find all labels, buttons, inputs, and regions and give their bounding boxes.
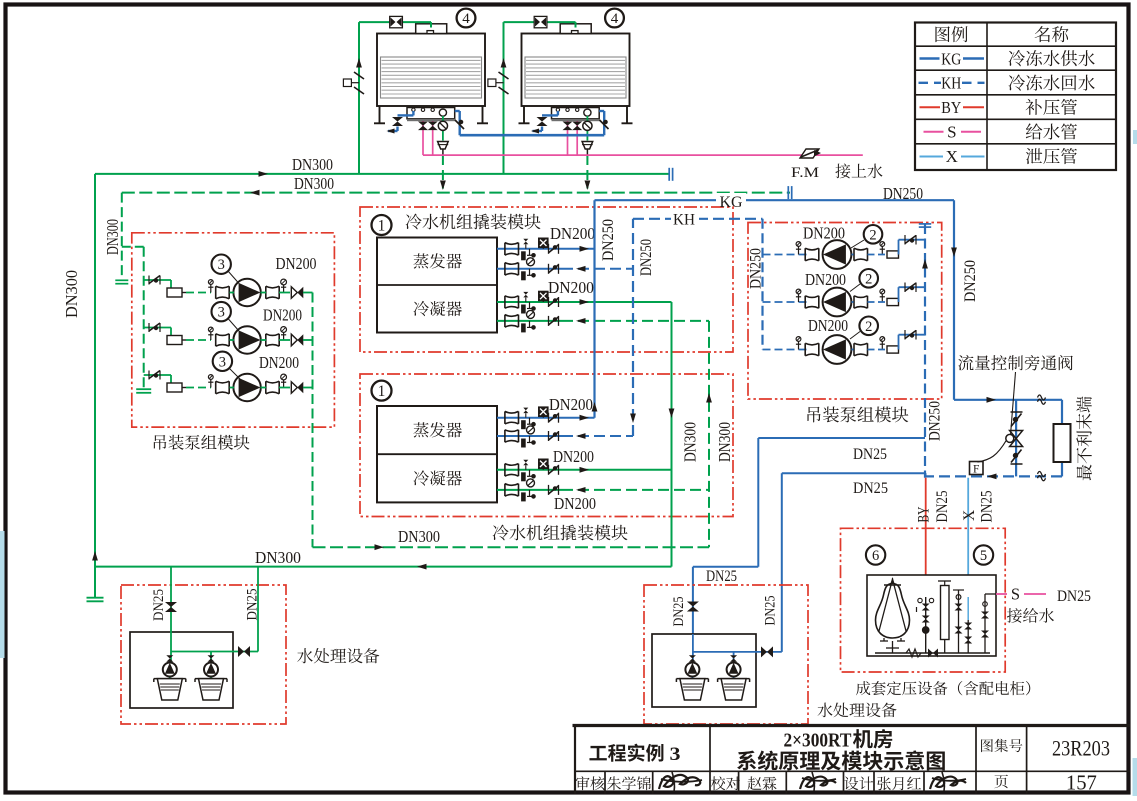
- tower riser balancing valve: [343, 72, 364, 94]
- svg-text:2: 2: [865, 319, 872, 335]
- label DN300 bottom dashed header: [398, 527, 440, 546]
- left pump module caption: [154, 435, 250, 450]
- pump branch pipe: [230, 339, 267, 341]
- equipment tag circle 5: [974, 545, 993, 564]
- svg-text:DN25: DN25: [706, 568, 737, 585]
- left dosing tap 1 DN25 from header: [170, 567, 172, 652]
- pump discharge butterfly valve: [279, 382, 313, 393]
- left edge blue strip: [0, 531, 5, 658]
- module1 title text: [406, 214, 541, 230]
- pump suction dashed segment from manifold: [763, 254, 808, 256]
- supply pipe to terminal: [954, 399, 1062, 401]
- left water treatment caption: [297, 648, 379, 663]
- svg-text:2: 2: [869, 227, 876, 243]
- left dosing pump 1: [163, 655, 177, 676]
- svg-text:X: X: [946, 147, 958, 166]
- legend row BY pressure makeup: [920, 98, 1077, 117]
- flow control valve body: [1006, 431, 1023, 447]
- KG chilled supply riser: [593, 200, 595, 418]
- pump suction dashed segment from manifold: [763, 349, 808, 351]
- terminal drop pipe: [1061, 400, 1063, 477]
- pump tag circle 3 row3: [213, 352, 240, 379]
- pump suction gauge: [208, 327, 213, 340]
- label X vertical: [961, 510, 978, 521]
- left dosing pump 2: [204, 655, 218, 676]
- condenser supply bottom header DN300: [95, 566, 672, 568]
- condenser inlet pipe symbols: [505, 315, 559, 332]
- condenser inlet pipe symbols: [505, 484, 559, 501]
- tower drain dashed pipe to return header: [585, 155, 591, 190]
- pump discharge gauge H: [880, 337, 885, 350]
- checker name zhao lin: [748, 776, 777, 790]
- title line1 2x300RT plant room: [784, 729, 893, 751]
- center dosing pump 1: [685, 655, 699, 676]
- evaporator return pipe in: [497, 433, 633, 439]
- X relief column inside cabinet: [964, 597, 972, 653]
- pressure equipment cabinet: [867, 575, 996, 656]
- left dosing internal pipe: [170, 652, 233, 695]
- circulation pump tag3: [233, 326, 260, 353]
- label ye (page): [994, 775, 1008, 789]
- svg-text:1: 1: [378, 383, 386, 400]
- module number tag 1: [372, 215, 392, 235]
- pump discharge jog with check valve: [899, 330, 926, 350]
- pump suction gauge H: [796, 289, 801, 302]
- tank drain to manifold: [886, 641, 899, 653]
- svg-text:DN25: DN25: [763, 596, 779, 626]
- pump discharge gauge: [281, 374, 287, 387]
- tower basin: [552, 108, 600, 122]
- svg-text:23R203: 23R203: [1052, 736, 1110, 761]
- svg-text:DN25: DN25: [934, 490, 951, 522]
- center tap1 valve: [687, 602, 699, 612]
- label DN300 return header: [294, 174, 334, 193]
- label DN200 right pump row3: [808, 316, 848, 335]
- pump discharge gauge H: [880, 289, 885, 302]
- label jie shang shui (connect to city water): [835, 164, 882, 179]
- cooling tower louver fill: [525, 57, 626, 98]
- label DN200 module2 evap supply: [549, 395, 593, 414]
- label jie gei shui (connect feed water): [1007, 608, 1054, 623]
- label DN300 condenser outlet riser: [681, 422, 700, 462]
- svg-text:DN200: DN200: [554, 494, 596, 513]
- svg-text:1: 1: [378, 217, 386, 234]
- circulation pump tag3: [233, 279, 260, 306]
- center water treatment caption: [817, 703, 896, 718]
- label DN250 KH riser vertical: [638, 239, 655, 276]
- chiller unit body: [377, 238, 497, 333]
- pump outlet valve: [266, 334, 279, 346]
- svg-text:F.M: F.M: [791, 165, 819, 181]
- pump tag circle 3 row1: [212, 255, 240, 284]
- cooling tower legs: [374, 106, 488, 123]
- label jiao dui (checked): [711, 776, 740, 790]
- left pump suction dashed jog from return riser: [122, 246, 144, 248]
- svg-text:DN200: DN200: [263, 306, 302, 325]
- pump discharge gauge H: [880, 242, 885, 255]
- pump branch pipe: [230, 292, 267, 294]
- evaporator supply pipe symbols: [505, 407, 559, 429]
- designer signature: [930, 772, 966, 791]
- evaporator return pipe in: [497, 266, 633, 272]
- label DN200 left pump row2: [263, 306, 302, 325]
- svg-text:3: 3: [670, 744, 681, 765]
- svg-text:DN250: DN250: [748, 248, 765, 289]
- label KH on header: [671, 212, 699, 229]
- pump inlet flexible connector: [167, 383, 186, 392]
- label DN25 feed stub: [1057, 588, 1091, 605]
- pump suction dashed segment: [186, 387, 211, 389]
- svg-text:F: F: [973, 463, 979, 475]
- label DN250 discharge manifold vertical: [927, 401, 944, 441]
- tower drain dashed pipe to return header: [440, 155, 446, 190]
- basin makeup pink pipes with valves: [418, 121, 438, 155]
- condenser return bottom header dashed DN300: [313, 546, 710, 548]
- KG riser arrow up: [592, 402, 598, 412]
- legend row KG chilled supply: [920, 49, 1095, 68]
- return header end cap: [788, 186, 791, 199]
- right pump suction manifold dashed DN250: [761, 219, 763, 350]
- bypass upper check valve: [1011, 412, 1023, 427]
- label evaporator: [413, 253, 461, 268]
- left tap2 valve: [238, 646, 250, 657]
- tower basin equalizer pipe: [460, 134, 605, 137]
- cooling tower legs: [519, 106, 633, 123]
- pump tag circle 3 row2: [212, 302, 240, 331]
- bottom solid header arrow left: [417, 564, 427, 570]
- label DN200 right pump row2: [805, 270, 846, 289]
- shared gauge condenser pair: [527, 310, 535, 318]
- return header arrow: [250, 190, 260, 196]
- pump tag circle 2 row3: [850, 317, 878, 340]
- cooling tower louver fill: [381, 57, 482, 98]
- label DN250 supply riser vertical: [962, 260, 979, 302]
- pump suction dashed segment from manifold: [763, 301, 808, 303]
- chilled water pump tag2: [823, 240, 852, 269]
- cabinet bottom manifold: [875, 649, 990, 658]
- svg-text:DN250: DN250: [962, 260, 979, 302]
- center dosing pump 2: [727, 655, 741, 676]
- S feed connection inside cabinet: [981, 594, 996, 653]
- svg-text:BY: BY: [916, 507, 933, 523]
- drain funnel symbol: [438, 142, 449, 156]
- module number tag 1: [372, 381, 392, 401]
- expansion tank vessel: [876, 577, 910, 641]
- center dosing bucket 1: [676, 679, 708, 700]
- right pump module caption: [807, 407, 908, 423]
- svg-text:3: 3: [218, 305, 225, 321]
- pump inlet valve: [805, 343, 819, 356]
- label F.M: [791, 165, 819, 181]
- tower number tag 4: [605, 9, 624, 28]
- basin outlet check valve to equalizer: [599, 111, 608, 135]
- svg-text:DN25: DN25: [671, 597, 687, 627]
- svg-text:DN200: DN200: [808, 316, 848, 335]
- title line2 system schematic: [737, 750, 945, 770]
- label condenser: [414, 470, 462, 485]
- svg-text:KG: KG: [941, 49, 961, 68]
- right discharge manifold arrow up: [922, 259, 928, 269]
- svg-text:DN300: DN300: [715, 422, 734, 462]
- condenser outlet pipe: [497, 467, 672, 473]
- svg-text:DN300: DN300: [255, 548, 301, 567]
- tower inlet valve on horizontal: [534, 16, 547, 27]
- most unfavourable terminal unit: [1054, 424, 1071, 462]
- pump branch inlet check assembly: [144, 276, 171, 289]
- label DN25 left tap1 vertical: [151, 589, 167, 621]
- tower inlet pipe riser: [359, 22, 431, 174]
- legend row KH chilled return: [919, 74, 1095, 93]
- feed water header S pipe: [423, 154, 863, 156]
- center dosing bucket 2: [718, 679, 750, 700]
- pump inlet valve: [805, 296, 819, 308]
- left water treatment enclosure dash-dot box: [121, 585, 286, 724]
- pump branch inlet check assembly: [144, 323, 171, 336]
- condenser inlet riser DN300 dashed: [708, 321, 710, 547]
- condenser inlet riser arrow up: [706, 393, 712, 403]
- svg-text:S: S: [1011, 585, 1020, 604]
- pump inlet valve: [216, 334, 230, 346]
- F.M makeup valve: [800, 149, 821, 158]
- basin green outlet with circle valve: [583, 116, 592, 141]
- pump discharge butterfly valve: [279, 287, 313, 298]
- svg-text:DN200: DN200: [548, 278, 594, 297]
- basin drain pipe with valve and arrow: [387, 111, 414, 134]
- label DN300 left return riser vertical: [103, 219, 122, 255]
- label evaporator: [413, 422, 461, 437]
- pump inlet valve: [216, 286, 230, 299]
- basin drain pipe with valve and arrow: [531, 111, 558, 134]
- label DN200 module1 cond supply: [548, 278, 594, 297]
- svg-text:DN25: DN25: [853, 480, 888, 497]
- svg-text:DN250: DN250: [638, 239, 655, 276]
- svg-text:3: 3: [219, 354, 226, 370]
- label DN250 KG header: [883, 184, 923, 203]
- pump branch pipe: [230, 387, 267, 389]
- bypass pipe with flow control valve: [1015, 400, 1017, 477]
- KG header horizontal DN250: [595, 199, 955, 201]
- pump discharge flexible joint: [868, 346, 899, 353]
- svg-text:DN25: DN25: [1057, 588, 1091, 605]
- legend row X relief pipe: [920, 147, 1077, 166]
- left riser bottom cap: [87, 598, 104, 602]
- condenser outlet pipe symbols: [505, 459, 559, 481]
- basin outlet check valve to equalizer: [455, 111, 464, 135]
- left riser arrow up: [92, 551, 98, 561]
- chiller module enclosure dash-dot box: [360, 207, 733, 352]
- KH header horizontal dashed: [633, 218, 763, 220]
- reviewer name zhu xue jin: [607, 776, 651, 790]
- right edge blue ticks: [1133, 130, 1137, 796]
- chiller module enclosure dash-dot box: [360, 374, 733, 517]
- evaporator supply pipe symbols: [505, 238, 559, 259]
- supply pipe break marks: [1038, 395, 1046, 404]
- left tap1 valve: [165, 602, 177, 612]
- svg-text:DN300: DN300: [398, 527, 440, 546]
- svg-text:DN300: DN300: [62, 270, 81, 318]
- pump suction gauge: [208, 280, 213, 293]
- right pump discharge manifold dashed DN250: [924, 224, 926, 478]
- pressure equipment caption: [856, 681, 1030, 695]
- pressure equipment enclosure dash-dot box: [841, 528, 1006, 672]
- svg-text:5: 5: [980, 548, 987, 564]
- label DN25 center tap1 vertical: [671, 597, 687, 627]
- pump tag circle 2 row2: [850, 269, 878, 292]
- chemical feed line B DN25: [782, 473, 926, 652]
- svg-text:DN200: DN200: [259, 353, 299, 372]
- svg-text:DN200: DN200: [276, 254, 317, 273]
- label DN200 left pump row3: [259, 353, 299, 372]
- cooling tower body: [377, 34, 485, 107]
- legend header cells: [935, 26, 1068, 42]
- pump inlet flexible connector: [167, 336, 186, 345]
- evaporator supply pipe out: [497, 246, 595, 252]
- second column with valves: [953, 590, 964, 653]
- shared gauge condenser pair: [527, 479, 535, 487]
- shared gauge evaporator pair: [527, 426, 535, 434]
- KH chilled return riser dashed: [632, 219, 634, 436]
- svg-text:DN25: DN25: [979, 490, 996, 522]
- label DN250 KG riser vertical at chiller: [600, 219, 617, 261]
- left return riser cap: [115, 280, 128, 283]
- svg-text:DN250: DN250: [883, 184, 923, 203]
- pump tag circle 2 row1: [851, 225, 882, 248]
- label project example 3: [589, 744, 680, 765]
- pump outlet valve: [852, 296, 868, 308]
- svg-text:X: X: [961, 510, 978, 521]
- label DN300 supply header: [292, 155, 333, 174]
- legend row S feed water: [924, 123, 1077, 142]
- svg-text:2×300RT: 2×300RT: [784, 730, 852, 752]
- svg-text:DN300: DN300: [103, 219, 122, 255]
- condenser outlet riser arrow down: [669, 409, 675, 419]
- label BY vertical: [916, 507, 933, 523]
- pump branch inlet check assembly: [144, 371, 171, 384]
- pump outlet valve: [266, 286, 279, 299]
- pump discharge flexible joint: [868, 251, 899, 258]
- tower riser balancing valve: [488, 72, 509, 94]
- left pump suction manifold dashed: [143, 247, 145, 388]
- label DN200 left pump row1: [276, 254, 317, 273]
- center feed internal pipe: [692, 634, 781, 694]
- left return dashed riser DN300: [121, 193, 123, 281]
- svg-text:DN200: DN200: [803, 224, 845, 243]
- tower inlet flow arrow: [356, 58, 362, 68]
- S feed water stub magenta: [996, 593, 1046, 595]
- condenser water supply header DN300 to towers: [95, 173, 669, 175]
- bottom dashed header arrow right: [375, 544, 385, 550]
- svg-text:6: 6: [872, 548, 879, 564]
- chilled water pump tag2: [823, 335, 852, 364]
- return pipe from terminal dashed: [925, 475, 1062, 477]
- pump suction gauge H: [796, 337, 801, 350]
- left dosing bucket 2: [195, 679, 227, 700]
- pump suction gauge: [208, 375, 213, 388]
- condenser water return header DN300 dashed: [122, 192, 790, 194]
- label DN25 line A: [853, 446, 887, 463]
- svg-text:3: 3: [218, 257, 225, 273]
- svg-text:157: 157: [1066, 771, 1097, 795]
- pressure makeup pipe BY red: [925, 478, 927, 597]
- cooling tower fan motor box: [560, 24, 591, 34]
- bypass lower check valve: [1011, 450, 1023, 465]
- label she ji (designed): [844, 776, 873, 790]
- svg-text:DN300: DN300: [292, 155, 333, 174]
- pump inlet valve: [216, 381, 230, 394]
- pump suction dashed segment: [186, 339, 211, 341]
- label DN25 line B: [853, 480, 888, 497]
- basin green outlet with circle valve: [438, 116, 447, 141]
- atlas number 23R203: [1052, 736, 1110, 761]
- cooling tower fan motor box: [416, 24, 447, 34]
- supply header end cap: [669, 168, 672, 181]
- svg-text:DN300: DN300: [294, 174, 334, 193]
- chilled supply riser DN250 right side: [953, 200, 955, 400]
- supply pipe arrow right: [987, 397, 997, 403]
- pump discharge gauge: [281, 327, 287, 340]
- pump inlet flexible connector: [167, 288, 186, 297]
- label DN250 right pump suction manifold: [748, 248, 765, 289]
- control signal curve to flow meter: [978, 440, 1007, 462]
- label DN300 bottom solid header: [255, 548, 301, 567]
- svg-text:DN25: DN25: [151, 589, 167, 621]
- svg-text:DN25: DN25: [853, 446, 887, 463]
- left dosing tap 2 DN25 from header: [233, 567, 258, 652]
- pump discharge flexible joint: [868, 298, 899, 305]
- designer name zhang yue hong: [877, 777, 921, 791]
- right discharge manifold top cap: [919, 224, 931, 227]
- BY column valves inside cabinet: [918, 597, 934, 653]
- condenser inlet pipe dashed: [497, 487, 709, 493]
- tower inlet valve on horizontal: [390, 16, 403, 27]
- svg-text:DN200: DN200: [805, 270, 846, 289]
- shared gauge evaporator pair: [527, 258, 535, 266]
- evaporator supply pipe out: [497, 415, 595, 421]
- pump discharge jog with check valve: [899, 235, 926, 255]
- tower inlet pipe riser: [504, 22, 576, 174]
- return pipe arrow left: [987, 474, 997, 480]
- left pump suction manifold cap: [136, 389, 151, 393]
- right pump module enclosure dash-dot box: [748, 223, 942, 400]
- svg-text:KH: KH: [673, 212, 695, 229]
- tower inlet flow arrow: [501, 58, 507, 68]
- return pipe break marks: [1038, 472, 1046, 481]
- svg-text:DN200: DN200: [549, 395, 593, 414]
- svg-text:KH: KH: [941, 74, 961, 93]
- left condenser riser DN300: [94, 174, 96, 597]
- supply riser arrow down: [951, 248, 957, 258]
- pump discharge butterfly valve: [279, 334, 313, 346]
- label condenser: [414, 301, 462, 316]
- center tap2 valve: [761, 646, 773, 657]
- pump outlet valve: [266, 381, 279, 394]
- pump suction dashed segment: [186, 292, 211, 294]
- chilled water pump tag2: [823, 288, 852, 317]
- flow meter F on return: [970, 462, 984, 476]
- svg-text:2: 2: [865, 271, 872, 287]
- drain funnel symbol: [582, 142, 593, 156]
- svg-text:DN200: DN200: [550, 224, 595, 243]
- label shen he (reviewed): [576, 776, 605, 790]
- pump suction gauge H: [796, 242, 801, 255]
- label DN25 X vertical: [979, 490, 996, 522]
- svg-text:DN25: DN25: [245, 589, 261, 621]
- pump discharge jog with check valve: [899, 283, 926, 303]
- KH riser arrow down: [630, 414, 636, 424]
- left water treatment tank cabinet: [130, 632, 233, 708]
- left dosing bucket 1: [154, 679, 186, 700]
- chiller unit body: [377, 406, 497, 502]
